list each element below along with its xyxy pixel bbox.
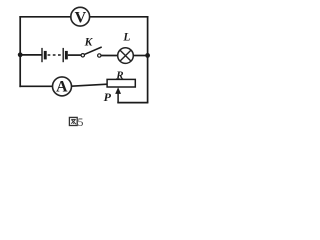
node: right junction	[145, 53, 150, 58]
wire: ammeter to rheostat	[71, 84, 107, 86]
wire: left junction to battery	[20, 54, 42, 56]
wire: voltmeter to top-right	[90, 16, 149, 18]
wire: left vertical	[19, 16, 21, 87]
wire: right vertical	[147, 16, 149, 103]
battery B1 (multi-cell with dashed middle)	[42, 48, 68, 62]
wire: top-left to voltmeter	[19, 16, 70, 18]
rheostat R (resistor box)	[107, 79, 135, 87]
slider arrow P (wiper)	[115, 87, 121, 103]
svg-text:R: R	[115, 70, 123, 82]
svg-text:V: V	[75, 9, 87, 26]
ammeter U2	[53, 77, 72, 96]
svg-text:L: L	[122, 31, 130, 43]
switch K	[81, 47, 102, 57]
wire: wiper to right vertical	[117, 102, 148, 104]
wire: switch to lamp	[101, 55, 118, 57]
svg-text:5: 5	[78, 117, 84, 129]
svg-text:P: P	[104, 90, 112, 104]
svg-text:A: A	[56, 79, 68, 96]
wire: lamp to right junction	[133, 55, 147, 57]
caption 图5 (figure label, 图 drawn as paths)	[69, 117, 77, 125]
node: left junction	[18, 52, 23, 57]
voltmeter U1	[71, 7, 90, 26]
wire: bottom-left to ammeter	[19, 85, 52, 87]
svg-text:K: K	[84, 37, 94, 49]
wire: battery to switch	[68, 54, 81, 56]
lamp L	[118, 48, 134, 64]
